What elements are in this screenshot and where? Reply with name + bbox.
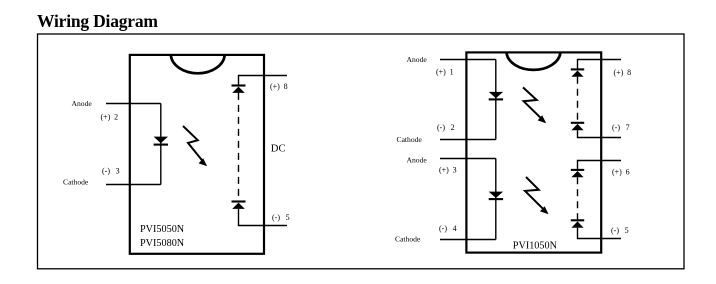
light emission arrow U2 ch1 [523,87,546,123]
svg-text:Cathode: Cathode [63,178,89,187]
photodiode PD6 (U2 ch2 bottom) [571,220,584,227]
photodiode PD2 (U1 bottom) [232,202,246,209]
svg-text:Cathode: Cathode [397,135,423,144]
IC package U1 pin-1 notch [171,55,225,73]
photodiode PD3 (U2 ch1 top) [571,69,584,76]
LED D1 [154,137,168,145]
svg-text:(+)8: (+)8 [614,68,632,77]
svg-text:Anode: Anode [407,155,428,164]
svg-text:(+)8: (+)8 [270,82,288,91]
svg-text:Anode: Anode [407,55,428,64]
wire LED2 branch vertical [495,159,497,240]
wire dashed photovoltaic stack U2 ch2 [577,177,579,219]
svg-text:Anode: Anode [72,99,93,108]
photodiode PD1 (U1 top) [232,86,246,93]
photodiode PD4 (U2 ch1 bottom) [571,123,584,130]
wire pin 8 (U2 ch1 top) [578,60,622,69]
svg-text:Cathode: Cathode [395,235,421,244]
wire LED branch vertical [160,104,162,185]
svg-text:(+)2: (+)2 [101,112,119,121]
svg-text:(+)6: (+)6 [612,167,630,176]
wire dashed photovoltaic stack U1 [238,93,240,200]
wire pin 5 (U1 output bottom) [239,209,288,226]
IC package U2 body [466,52,601,252]
wire LED1 branch vertical [495,60,497,140]
wire cathode pin 4 [440,239,496,241]
wire pin 8 (U1 output top) [239,76,288,86]
LED D3 (U2 ch2) [489,192,503,200]
wire pin 7 (U2 ch1 bottom) [578,130,622,137]
wire cathode pin 2 [440,139,496,141]
IC package U1 body [130,55,264,254]
wire anode pin 1 [440,59,496,61]
svg-text:DC: DC [271,143,286,154]
svg-text:(+)1: (+)1 [436,67,454,76]
svg-text:(+)3: (+)3 [439,165,457,174]
wire pin 5 (U2 ch2 bottom) [578,228,622,239]
figure frame [38,34,685,269]
svg-text:PVI5050N: PVI5050N [140,224,185,235]
LED D2 (U2 ch1) [489,92,503,100]
svg-text:PVI1050N: PVI1050N [513,241,558,252]
svg-text:Wiring Diagram: Wiring Diagram [37,11,158,31]
wire dashed photovoltaic stack U2 ch1 [577,77,579,122]
svg-text:PVI5080N: PVI5080N [140,238,185,249]
wire anode pin 2 [106,103,161,105]
IC package U2 pin-1 notch [507,53,561,70]
wire cathode pin 3 [106,184,161,186]
light emission arrow U2 ch2 [525,177,549,214]
light emission arrow U1 [183,126,207,166]
wire anode pin 3 [440,158,496,160]
photodiode PD5 (U2 ch2 top) [571,170,584,177]
wire pin 6 (U2 ch2 top) [578,161,622,169]
